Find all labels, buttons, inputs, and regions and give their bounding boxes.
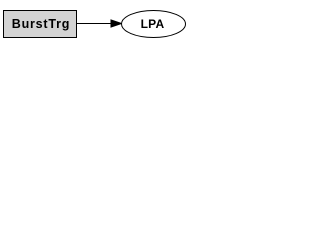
arrowhead (111, 20, 122, 27)
svg-text:BurstTrg: BurstTrg (12, 17, 71, 31)
node LPA (122, 11, 186, 38)
node BurstTrg (4, 11, 77, 38)
wire edge BurstTrg->LPA (77, 23, 112, 25)
svg-text:LPA: LPA (141, 17, 165, 31)
